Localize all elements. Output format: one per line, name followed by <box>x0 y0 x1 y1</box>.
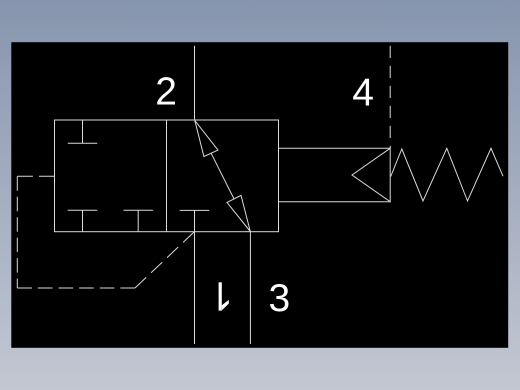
blocked port symbol T (left square, bottom-middle) <box>123 210 153 232</box>
svg-text:2: 2 <box>155 71 177 114</box>
arrowhead down (toward port 3) <box>227 195 250 231</box>
drawing canvas (black CAD viewport) <box>11 42 508 348</box>
port 3 line <box>249 232 251 344</box>
port 1 line <box>194 232 196 344</box>
port 2 line <box>194 46 196 120</box>
valve position divider <box>166 120 168 232</box>
port label 1 (digit drawn rotated 180, stem + flag) <box>219 282 229 310</box>
valve body outline <box>55 120 279 232</box>
pilot line 4 (dashed) <box>389 46 391 149</box>
return spring <box>391 148 503 201</box>
pilot arrowhead triangle <box>352 148 390 201</box>
pilot control line (dashed, diagonal) <box>135 232 194 288</box>
blocked port symbol T (left square, bottom-left) <box>68 210 98 232</box>
blocked port symbol T (left square, top) <box>68 120 98 143</box>
pilot channel bottom line <box>279 201 391 203</box>
pilot control line (dashed, bottom horizontal) <box>17 287 135 289</box>
svg-text:4: 4 <box>352 71 374 114</box>
svg-text:3: 3 <box>269 277 291 320</box>
blocked port symbol T (right square, port 1) <box>180 210 210 231</box>
pilot control line (dashed, left vertical) <box>16 176 18 288</box>
pilot channel top line <box>279 147 391 149</box>
flow path line 2-3 (right square) <box>211 153 234 199</box>
arrowhead up (toward port 2) <box>195 121 218 157</box>
pilot control line (dashed, left horizontal) <box>17 175 54 177</box>
